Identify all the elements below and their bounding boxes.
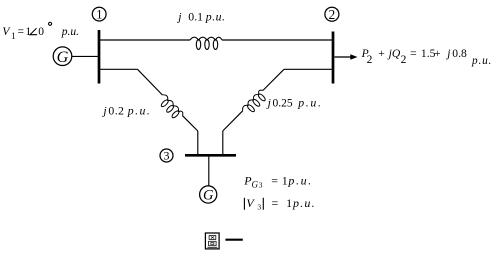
svg-text:j: j (176, 9, 181, 23)
svg-text:=: = (410, 47, 417, 60)
svg-text:=: = (272, 196, 279, 210)
node 3 circled label (160, 149, 173, 163)
svg-text:p.u.: p.u. (127, 103, 152, 117)
svg-text:p.u.: p.u. (287, 174, 312, 188)
wire right stub to bus3 (222, 131, 224, 156)
wire bus2 lower horizontal (284, 68, 332, 70)
svg-text:V: V (2, 26, 11, 38)
node 1 circled label (92, 7, 106, 21)
svg-text:G: G (203, 188, 214, 204)
svg-text:1: 1 (25, 26, 31, 38)
svg-text:2: 2 (367, 54, 373, 66)
svg-text:jQ: jQ (387, 47, 401, 60)
wire left diagonal upper (138, 69, 163, 95)
svg-text:p.u.: p.u. (205, 9, 226, 23)
label |V3| = 1 p.u. (244, 196, 315, 212)
svg-text:3: 3 (259, 180, 263, 189)
svg-text:=: = (18, 26, 25, 38)
svg-text:p.u.: p.u. (297, 95, 323, 109)
generator G1 (53, 47, 72, 66)
svg-text:0.1: 0.1 (188, 9, 203, 23)
wire coil L12 to bus2 (222, 39, 332, 41)
label V1 = 1 angle 0 deg p.u. (2, 22, 79, 41)
wire right diagonal upper (263, 69, 284, 90)
wire bus3 to generator G3 (208, 157, 210, 187)
svg-text:0.25: 0.25 (273, 97, 293, 109)
wire left diagonal lower (183, 116, 198, 131)
wire bus1 to coil L12 (100, 39, 190, 41)
load arrowhead (350, 54, 357, 60)
generator G1 lead wire (72, 55, 98, 57)
svg-text:j: j (101, 103, 106, 117)
node 2 circled label (325, 7, 339, 22)
svg-text:G: G (57, 48, 69, 66)
svg-text:0: 0 (38, 26, 44, 38)
svg-text:0.8: 0.8 (452, 47, 467, 60)
svg-text:2: 2 (401, 54, 407, 66)
svg-text:G: G (252, 179, 259, 189)
svg-text:1: 1 (286, 196, 292, 210)
generator G3 (200, 186, 217, 204)
svg-text:p.u.: p.u. (471, 55, 492, 67)
svg-text:1: 1 (96, 8, 102, 22)
wire right diagonal lower (223, 111, 243, 131)
svg-text:2: 2 (329, 7, 336, 22)
svg-text:j: j (266, 95, 271, 109)
inductor L23 j0.25 (241, 89, 269, 117)
label P2 + jQ2 = 1.5 + j0.8 p.u. (361, 47, 493, 67)
label j0.25 p.u. (266, 95, 323, 109)
caption: hanzi TU (figure) drawn as strokes (205, 233, 219, 249)
bus 1 bar (98, 30, 101, 84)
svg-text:+: + (378, 47, 385, 60)
svg-text:j: j (445, 47, 450, 60)
wire left stub to bus3 (197, 131, 199, 156)
caption: hanzi ONE drawn as stroke (225, 239, 242, 241)
svg-text:p.u.: p.u. (61, 26, 79, 38)
svg-text:V: V (246, 196, 255, 210)
label j0.2 p.u. (101, 103, 151, 117)
svg-text:1: 1 (282, 174, 288, 188)
svg-text:0.2: 0.2 (108, 103, 124, 117)
wire bus1 lower horizontal (100, 68, 138, 70)
svg-text:p.u.: p.u. (292, 196, 316, 210)
svg-text:3: 3 (257, 203, 261, 212)
bus 2 bar (332, 32, 335, 84)
inductor L13 j0.2 (156, 93, 184, 121)
svg-text:1: 1 (11, 31, 16, 41)
label j 0.1 p.u. (176, 9, 225, 23)
inductor L12 j0.1 (190, 37, 222, 49)
load arrow wire at bus 2 (335, 56, 351, 58)
bus 3 bar (185, 154, 236, 157)
svg-text:3: 3 (164, 149, 170, 163)
svg-text:+: + (434, 47, 441, 60)
label PG3 = 1 p.u. (243, 174, 313, 190)
svg-text:=: = (271, 174, 278, 188)
